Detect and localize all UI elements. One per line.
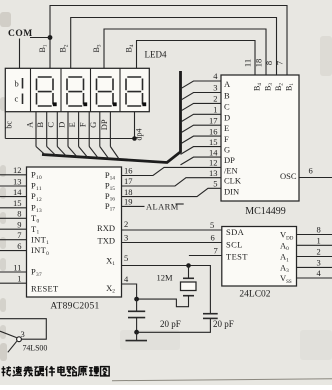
svg-text:12M: 12M [157, 273, 174, 283]
svg-text:C: C [46, 122, 56, 128]
svg-text:DP: DP [224, 155, 235, 165]
svg-text:CLK: CLK [224, 176, 242, 186]
svg-text:/EN: /EN [224, 165, 238, 175]
svg-text:6: 6 [309, 166, 313, 176]
svg-text:G: G [88, 122, 98, 128]
svg-text:1: 1 [213, 105, 217, 115]
svg-text:1: 1 [317, 235, 321, 245]
svg-text:G: G [224, 145, 230, 155]
svg-text:A: A [224, 79, 231, 89]
svg-text:13: 13 [13, 176, 22, 186]
svg-text:18: 18 [254, 59, 264, 68]
svg-text:16: 16 [124, 166, 133, 176]
svg-text:19: 19 [124, 197, 133, 207]
svg-text:1: 1 [17, 274, 21, 284]
svg-text:OSC: OSC [280, 171, 297, 181]
svg-text:20 pF: 20 pF [160, 319, 181, 329]
svg-text:8: 8 [17, 209, 21, 219]
svg-text:7: 7 [275, 61, 285, 65]
svg-text:7: 7 [214, 246, 218, 256]
svg-text:17: 17 [209, 115, 218, 125]
svg-text:RXD: RXD [97, 223, 115, 233]
svg-text:SDA: SDA [226, 227, 245, 237]
svg-text:COM: COM [8, 29, 33, 39]
svg-text:8: 8 [264, 61, 274, 65]
svg-text:E: E [67, 122, 77, 127]
svg-text:F: F [224, 134, 229, 144]
svg-text:E: E [224, 123, 229, 133]
svg-text:3: 3 [213, 83, 217, 93]
svg-text:12: 12 [209, 158, 218, 168]
svg-text:F: F [78, 122, 88, 127]
svg-text:12: 12 [13, 165, 22, 175]
svg-text:6: 6 [211, 233, 215, 243]
svg-text:74LS00: 74LS00 [23, 344, 48, 353]
svg-text:11: 11 [243, 59, 253, 67]
svg-text:D: D [56, 122, 66, 128]
svg-text:ALARM: ALARM [146, 201, 179, 211]
svg-text:15: 15 [13, 198, 22, 208]
svg-text:3: 3 [21, 329, 25, 339]
svg-text:DP: DP [99, 119, 109, 130]
svg-text:11: 11 [13, 262, 21, 272]
svg-text:2: 2 [317, 247, 321, 257]
svg-text:16: 16 [209, 126, 218, 136]
svg-text:B: B [224, 91, 230, 101]
svg-text:SCL: SCL [226, 240, 243, 250]
svg-text:9: 9 [17, 220, 21, 230]
svg-text:B: B [35, 122, 45, 128]
svg-text:b: b [15, 79, 19, 89]
svg-text:2: 2 [124, 219, 128, 229]
svg-text:13: 13 [209, 168, 218, 178]
svg-text:8: 8 [317, 225, 321, 235]
svg-text:24LC02: 24LC02 [239, 290, 270, 300]
svg-text:D: D [224, 112, 230, 122]
svg-text:2: 2 [213, 94, 217, 104]
svg-text:7: 7 [17, 230, 21, 240]
svg-text:5: 5 [213, 179, 217, 189]
svg-text:20 pF: 20 pF [213, 319, 234, 329]
svg-text:c: c [15, 94, 19, 104]
svg-text:RESET: RESET [31, 284, 59, 294]
svg-text:TEST: TEST [226, 252, 248, 262]
svg-text:MC14499: MC14499 [245, 206, 286, 217]
svg-text:5: 5 [210, 220, 214, 230]
svg-text:LED4: LED4 [145, 50, 167, 60]
svg-text:14: 14 [209, 147, 218, 157]
svg-text:DIN: DIN [224, 186, 239, 196]
svg-text:14: 14 [13, 187, 22, 197]
svg-text:AT89C2051: AT89C2051 [50, 302, 99, 312]
svg-text:6: 6 [17, 241, 21, 251]
svg-text:3: 3 [124, 233, 128, 243]
svg-text:A: A [24, 121, 34, 128]
svg-text:C: C [224, 101, 230, 111]
svg-text:18: 18 [124, 187, 133, 197]
svg-text:3: 3 [317, 257, 321, 267]
svg-text:17: 17 [124, 176, 133, 186]
svg-text:5: 5 [124, 253, 128, 263]
svg-text:15: 15 [209, 137, 218, 147]
svg-text:dp4: dp4 [135, 129, 144, 141]
svg-text:TXD: TXD [98, 236, 115, 246]
svg-text:bc: bc [5, 121, 14, 129]
